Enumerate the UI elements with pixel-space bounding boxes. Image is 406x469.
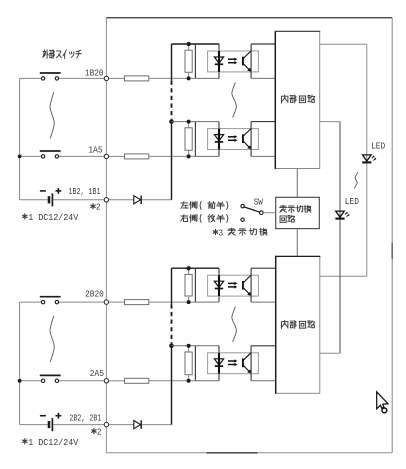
wire terminal rail (module left edge) bbox=[105, 18, 107, 453]
diode D2 (reverse protection) bbox=[109, 424, 134, 426]
wire common rail top unit bbox=[171, 44, 173, 81]
optocoupler PC3 input-side box bbox=[172, 267, 220, 269]
svg-text:1B2, 1B1: 1B2, 1B1 bbox=[69, 187, 101, 197]
wire U1 to LED2 bbox=[320, 121, 340, 123]
wire U1 to display-switch box bbox=[296, 169, 298, 198]
svg-text:LED: LED bbox=[371, 141, 386, 152]
wire module frame top bbox=[106, 17, 392, 19]
optocoupler PC2 output-side box bbox=[250, 122, 252, 157]
text 内部回路 (U1) bbox=[282, 95, 315, 103]
svg-text:2B2, 2B1: 2B2, 2B1 bbox=[69, 414, 101, 424]
wire module frame bottom bbox=[106, 452, 392, 454]
optocoupler PC1 output-side box bbox=[250, 44, 252, 78]
optocoupler PC1 phototransistor bbox=[242, 57, 244, 66]
resistor R4 (vertical, input) bbox=[188, 346, 190, 352]
switch S2 (external, 1A5) bbox=[20, 155, 42, 157]
junction R1 top / common bbox=[187, 42, 191, 46]
optocoupler PC1 package bbox=[208, 51, 259, 72]
resistor R2 (vertical, input) bbox=[188, 122, 190, 128]
label *1 (bottom) asterisk bbox=[22, 438, 27, 444]
resistor R3 (vertical, input) bbox=[188, 268, 190, 274]
squiggle between opto1/opto2 bbox=[232, 82, 237, 117]
junction R3 top / common bbox=[187, 266, 191, 270]
text 回路 (box line2) bbox=[280, 215, 294, 222]
wire common rail dashed section (top) bbox=[171, 81, 173, 120]
svg-text:3: 3 bbox=[219, 227, 224, 238]
battery *1 DC12/24V (top) bbox=[20, 199, 48, 201]
svg-text:SW: SW bbox=[254, 196, 264, 207]
optocoupler PC1 light arrows bbox=[228, 58, 235, 60]
internal circuit box U1 (内部回路) bbox=[275, 31, 319, 168]
terminal 1B2,1B1 bbox=[104, 198, 108, 202]
switch SW (display select) bbox=[241, 204, 244, 207]
resistor input 2B20 bbox=[109, 301, 125, 303]
optocoupler PC3 light arrows bbox=[228, 282, 235, 284]
resistor input 2A5 bbox=[109, 380, 125, 382]
label *2 (bottom) asterisk bbox=[91, 428, 96, 434]
text 外部スイッチ bbox=[43, 50, 82, 59]
LED1 indicator bbox=[363, 155, 372, 161]
optocoupler PC4 input-side box bbox=[172, 345, 220, 347]
label *2 (top) asterisk bbox=[90, 203, 95, 209]
switch S1 (external, 1B20) bbox=[20, 77, 42, 79]
svg-text:1A5: 1A5 bbox=[88, 145, 103, 156]
text 表示切換 (*3) bbox=[228, 228, 267, 235]
junction common/opto2 bbox=[169, 119, 174, 124]
wire common rail dashed section (bottom) bbox=[171, 304, 173, 343]
resistor input 1B20 bbox=[109, 77, 125, 79]
svg-text:1B20: 1B20 bbox=[85, 67, 104, 78]
resistor input 1A5 bbox=[109, 155, 125, 157]
optocoupler PC4 phototransistor bbox=[242, 359, 244, 368]
internal circuit box U2 (内部回路) bbox=[276, 256, 320, 393]
svg-text:LED: LED bbox=[345, 196, 360, 207]
terminal 1B20 bbox=[104, 76, 108, 80]
wire common rail bottom unit bbox=[171, 268, 173, 304]
svg-text:2B20: 2B20 bbox=[85, 288, 104, 299]
terminal 2B20 bbox=[104, 300, 108, 304]
wire opto1 input bottom edge bbox=[195, 77, 219, 79]
squiggle between LEDs bbox=[354, 172, 358, 188]
mechanical link squiggle S1-S2 bbox=[50, 92, 54, 139]
wire SW to display box bbox=[263, 212, 276, 214]
svg-text:2: 2 bbox=[97, 426, 102, 437]
wire U1 to LED1 bbox=[320, 43, 367, 45]
wire external supply rail (bottom unit) bbox=[19, 302, 21, 425]
switch S4 (external, 2A5) bbox=[20, 380, 42, 382]
optocoupler PC3 LED bbox=[218, 275, 220, 296]
svg-text:2: 2 bbox=[96, 202, 101, 213]
wire external supply rail (top unit) bbox=[19, 78, 21, 199]
label *3 asterisk bbox=[213, 229, 218, 235]
terminal 2B2,2B1 bbox=[104, 422, 108, 426]
optocoupler PC2 phototransistor bbox=[242, 134, 244, 143]
terminal 2A5 bbox=[104, 379, 108, 383]
svg-text:1 DC12/24V: 1 DC12/24V bbox=[28, 212, 78, 223]
squiggle between opto3/opto4 bbox=[232, 307, 237, 342]
optocoupler PC3 output-side box bbox=[250, 268, 252, 302]
battery *1 DC12/24V (bottom) bbox=[20, 424, 48, 426]
LED2 indicator bbox=[336, 211, 345, 217]
mouse cursor bbox=[377, 392, 388, 409]
wire display-switch box to U2 bbox=[296, 229, 298, 257]
optocoupler PC4 light arrows bbox=[228, 360, 235, 362]
svg-text:1 DC12/24V: 1 DC12/24V bbox=[28, 437, 78, 448]
resistor R1 (vertical, input) bbox=[188, 44, 190, 50]
optocoupler PC3 package bbox=[208, 275, 259, 296]
junction rail/S4 bbox=[18, 379, 22, 383]
svg-text:2A5: 2A5 bbox=[90, 368, 105, 379]
optocoupler PC2 input-side box bbox=[172, 121, 220, 123]
text 左側（前半） bbox=[181, 201, 228, 209]
mechanical link squiggle S3-S4 bbox=[50, 316, 54, 363]
display switching circuit box (表示切換回路) bbox=[276, 197, 320, 228]
optocoupler PC1 input-side box bbox=[172, 43, 220, 45]
optocoupler PC1 LED bbox=[218, 51, 220, 72]
optocoupler PC3 phototransistor bbox=[242, 281, 244, 290]
wire module frame right bbox=[391, 18, 393, 453]
optocoupler PC4 output-side box bbox=[250, 346, 252, 381]
wire opto4 input bottom edge bbox=[195, 380, 219, 382]
optocoupler PC2 light arrows bbox=[228, 136, 235, 138]
optocoupler PC4 LED bbox=[218, 353, 220, 374]
wire opto2 input bottom edge bbox=[195, 155, 219, 157]
terminal 1A5 bbox=[104, 154, 108, 158]
wire opto3 input bottom edge bbox=[195, 301, 219, 303]
junction rail/S2 bbox=[18, 155, 22, 159]
label *1 (top) asterisk bbox=[22, 213, 27, 219]
text 表示切換 (box line1) bbox=[280, 205, 311, 212]
optocoupler PC2 package bbox=[208, 129, 259, 150]
text 内部回路 (U2) bbox=[282, 320, 315, 328]
wire LED1 to U2 bbox=[320, 275, 367, 277]
diode D1 (reverse protection) bbox=[109, 199, 134, 201]
switch S3 (external, 2B20) bbox=[20, 301, 42, 303]
optocoupler PC4 package bbox=[208, 353, 259, 374]
optocoupler PC2 LED bbox=[218, 129, 220, 150]
text 右側（後半） bbox=[181, 214, 228, 222]
junction common/opto4 bbox=[169, 344, 174, 349]
wire LED2 to U2 bbox=[320, 352, 340, 354]
